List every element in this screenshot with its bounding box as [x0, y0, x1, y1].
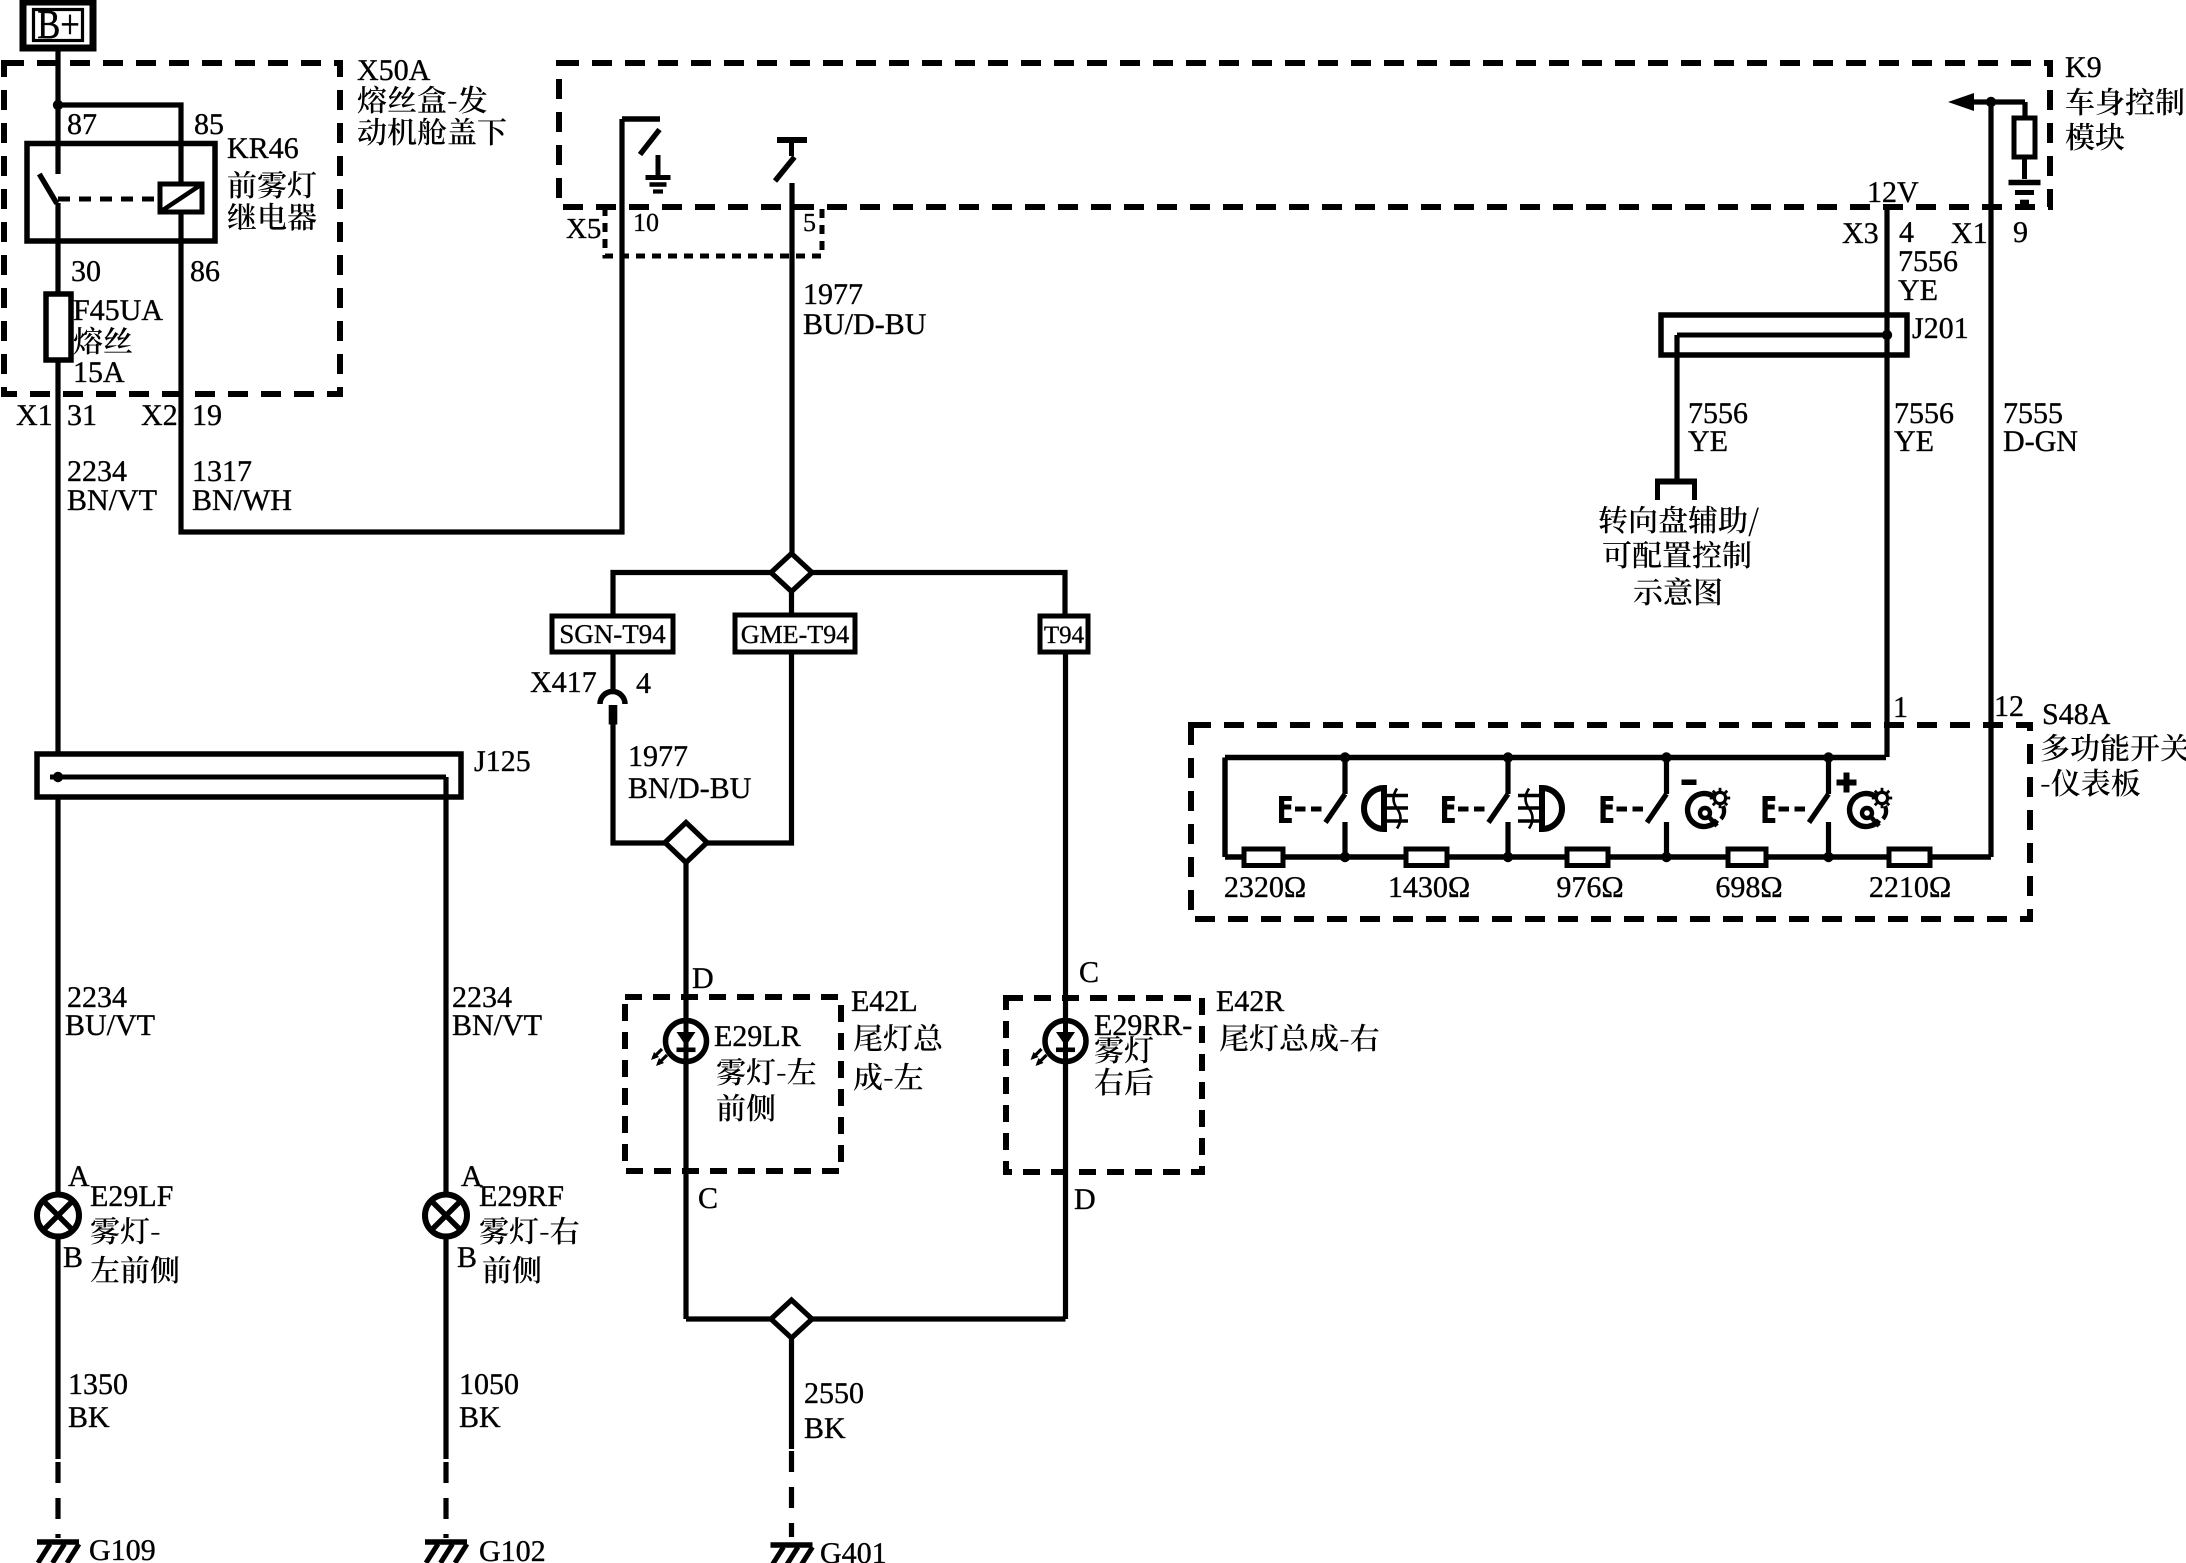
label F45UA [74, 300, 163, 320]
label 示意图 [1634, 577, 1721, 605]
switch dim minus with E actuator [1600, 752, 1671, 862]
label 尾灯总成-右 [1220, 1024, 1379, 1052]
label minus [1682, 780, 1697, 786]
BCM switch for X5:5 [775, 140, 807, 181]
relay KR46 box [27, 144, 215, 242]
switch rear fog with E actuator [1442, 752, 1513, 862]
relay KR46 pin 87 stub and switch blade [39, 143, 58, 204]
label 12V [1870, 182, 1919, 202]
label J201 [1913, 318, 1967, 338]
label 698 ohm [1717, 877, 1781, 897]
label E42L [852, 991, 916, 1011]
label X1 9 [1952, 222, 2027, 243]
wire fuse to J125 (2234 BN/VT) [55, 360, 60, 754]
wire diamond to SGN-T94 [613, 573, 771, 617]
label 1050 BK [460, 1374, 518, 1427]
BCM low-side switch for X5:10 with earth ground [622, 119, 671, 192]
relay KR46 mechanical link dashed [58, 197, 158, 202]
splice J201 [1661, 315, 1907, 355]
dashed wire to G109 [55, 1462, 60, 1538]
label 7556 YE middle [1894, 403, 1953, 451]
label 2234 BN/VT right [453, 987, 542, 1035]
label 1 [1896, 697, 1907, 717]
label S48A [2044, 704, 2110, 724]
S48A network left edge [1222, 758, 1227, 858]
label 熔丝 [74, 327, 132, 355]
label 87 [68, 114, 96, 134]
label G109 [90, 1540, 154, 1560]
icon rear fog lamp [1518, 788, 1562, 829]
label 尾灯总 [854, 1024, 941, 1052]
splice diamond node ground [771, 1300, 812, 1338]
resistor 1430 ohm [1406, 849, 1447, 866]
label 右后 [1095, 1068, 1153, 1096]
wire K9 X3:4 to J201 to S48A pin 1 (7556 YE) [1884, 207, 1889, 757]
label 1977 BN/D-BU [629, 746, 751, 798]
BCM 12V output arrow and pull-up resistor [1948, 93, 2025, 118]
label A right [461, 1166, 482, 1186]
label 雾灯-右 [480, 1217, 579, 1245]
resistor 2320 ohm [1244, 849, 1283, 866]
wire diamond to T94 [812, 573, 1065, 617]
wire J201 to steering wheel controls (7556 YE) [1674, 335, 1679, 481]
ground G109 [37, 1542, 79, 1563]
takeout T94 [1040, 616, 1088, 652]
resistor 698 ohm [1728, 849, 1766, 866]
wire X5:5 to diamond (1977 BU/D-BU) [789, 183, 794, 554]
label plus [1837, 773, 1857, 793]
label 30 [72, 261, 99, 281]
switch dim plus with E actuator [1762, 752, 1833, 862]
ground G401 [771, 1545, 813, 1563]
fuse F45UA 15A [46, 294, 71, 360]
label C below E42L [699, 1188, 716, 1208]
tail lamp assembly E42R dashed box [1006, 998, 1202, 1172]
splice J125 [37, 754, 461, 797]
takeout SGN-T94 [552, 616, 673, 652]
label E29LR [715, 1026, 801, 1046]
label 2550 BK [805, 1383, 863, 1438]
label 动机舱盖下 [358, 118, 506, 146]
label E29RR- [1095, 1015, 1191, 1035]
label 5 [805, 214, 815, 231]
label D below E42R [1075, 1189, 1095, 1209]
label 前雾灯 [228, 171, 316, 199]
label X1 31 [17, 405, 96, 425]
wire relay pin 30 to fuse [55, 203, 60, 294]
label B [64, 1247, 82, 1267]
label 86 [191, 261, 219, 281]
label 7555 D-GN [2004, 403, 2077, 451]
resistor inside K9 [2014, 118, 2035, 157]
switch front fog with E actuator [1279, 752, 1350, 862]
label X417 4 [531, 672, 651, 693]
label 熔丝盒-发 [358, 86, 487, 114]
wire SGN-T94 to X417 [610, 652, 615, 690]
icon front fog lamp [1364, 788, 1408, 829]
label 7556 YE upper [1898, 251, 1957, 300]
label 976 ohm [1557, 877, 1622, 897]
label 10 [635, 214, 658, 232]
LED E29RR rear fog lamp right [1031, 1021, 1087, 1067]
label 7556 YE left [1688, 403, 1747, 451]
wire J125 to E29LF lamp [55, 797, 60, 1195]
label 2234 BN/VT [68, 461, 157, 510]
S48A network top rail [1225, 755, 1886, 760]
S48A bottom rail segments [1225, 854, 1991, 859]
icon gauge dimming minus [1688, 788, 1731, 827]
label 雾灯-左 [717, 1058, 816, 1086]
dashed wire to G102 [443, 1462, 448, 1538]
label 车身控制 [2066, 88, 2184, 116]
label X3 4 [1843, 222, 1914, 243]
connector box X50A fuse box dashed [4, 63, 340, 394]
earth ground inside K9 [2009, 157, 2041, 202]
label 1350 BK [69, 1374, 127, 1427]
lamp E29LF fog lamp left front [37, 1195, 79, 1237]
wire E42L pin C to ground splice [686, 1316, 772, 1321]
connector X5 dashed box [605, 207, 822, 256]
label 左前侧 [91, 1256, 179, 1284]
label 85 [195, 114, 223, 134]
tail lamp assembly E42L dashed box [625, 997, 841, 1171]
wire GME-T94 down to lower splice [707, 652, 792, 843]
label 1317 BN/WH [193, 461, 291, 510]
wire E42R pin D to ground splice [812, 1316, 1066, 1321]
label 雾灯 [1095, 1036, 1153, 1064]
label 12 [1997, 696, 2023, 716]
ground G102 [425, 1542, 467, 1563]
connector box K9 body control module dashed [559, 63, 2050, 207]
label X50A [358, 60, 430, 80]
wire T94 to E42R pin C [1063, 652, 1068, 1319]
wire X417 to lower splice (1977 BN/D-BU) [613, 724, 665, 843]
label 成-左 [854, 1063, 923, 1091]
icon gauge dimming plus [1850, 788, 1893, 827]
takeout GME-T94 [735, 615, 855, 652]
dashed wire to G401 [789, 1451, 794, 1537]
resistor 976 ohm [1567, 849, 1608, 866]
label A [68, 1166, 89, 1186]
connector X417 pin 4 [600, 692, 625, 725]
wire E29RF to G102 (1050 BK) [443, 1237, 448, 1460]
label 2320 ohm [1225, 877, 1304, 897]
label X5 [567, 219, 601, 238]
label C [1080, 962, 1097, 982]
label G401 [821, 1543, 885, 1563]
node B+ supply [23, 2, 93, 48]
label 雾灯- [91, 1217, 159, 1245]
label 15A [76, 362, 125, 382]
label 多功能开关 [2042, 733, 2186, 761]
label 1977 BU/D-BU [804, 284, 926, 334]
wire diamond to GME-T94 [789, 592, 794, 616]
label E42R [1217, 991, 1284, 1011]
label 模块 [2066, 123, 2125, 151]
open connector fork to steering wheel [1655, 481, 1697, 500]
wire J125 to E29RF lamp (2234 BN/VT) [443, 777, 448, 1195]
label 前侧 right [483, 1256, 541, 1284]
label 2234 BU/VT left [66, 987, 155, 1035]
label 继电器 [228, 203, 317, 231]
junction on 12V line [1986, 97, 1996, 107]
wire splice to G401 (2550 BK) [789, 1338, 794, 1449]
resistor 2210 ohm [1889, 849, 1930, 866]
switch module S48A dashed box [1191, 725, 2030, 919]
splice diamond node lower [665, 823, 707, 863]
label -仪表板 [2041, 769, 2140, 797]
label D [693, 968, 713, 988]
label G102 [480, 1541, 544, 1561]
label X2 19 [142, 405, 221, 425]
wire branch to relay pin 85 [58, 105, 181, 144]
wire splice to E42L pin D [683, 863, 688, 1320]
lamp E29RF fog lamp right front [425, 1195, 467, 1237]
wire B+ to relay pin 87 [55, 48, 60, 144]
label E29LF [91, 1186, 172, 1206]
splice diamond node [771, 554, 812, 592]
label B right [458, 1247, 476, 1267]
wire E29LF to G109 (1350 BK) [55, 1237, 60, 1460]
relay KR46 coil [160, 143, 202, 241]
label 可配置控制 [1603, 541, 1751, 569]
label 前侧 [717, 1094, 775, 1122]
label 2210 ohm [1870, 877, 1949, 897]
label J125 [475, 751, 530, 771]
wire K9 X1:9 to S48A pin 12 (7555 D-GN) [1988, 102, 1993, 857]
label 转向盘辅助/ [1599, 506, 1759, 537]
label K9 [2066, 57, 2101, 77]
junction [53, 100, 63, 110]
label 1430 ohm [1391, 877, 1469, 897]
LED E29LR rear fog lamp left [651, 1021, 707, 1067]
label KR46 [228, 138, 298, 158]
wire relay pin 86 to BCM X5:10 (1317 BN/WH) [181, 119, 622, 532]
label E29RF [480, 1186, 563, 1206]
